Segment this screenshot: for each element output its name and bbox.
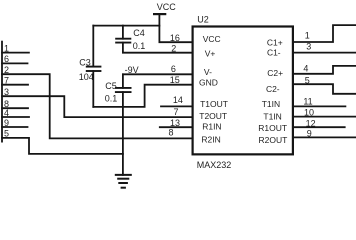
svg-text:T1OUT: T1OUT	[200, 99, 228, 109]
svg-text:R1IN: R1IN	[202, 121, 221, 131]
svg-text:C2+: C2+	[267, 68, 283, 78]
svg-text:2: 2	[171, 44, 176, 54]
svg-text:10: 10	[304, 108, 314, 118]
wire pin 11 T1IN	[293, 105, 346, 107]
wire pin 1 C1+	[293, 25, 356, 42]
svg-text:C4: C4	[133, 28, 145, 38]
chip left pin names	[199, 34, 228, 144]
svg-text:7: 7	[173, 107, 178, 117]
chip right pin numbers	[303, 31, 315, 139]
capacitor C4 top lead	[122, 26, 124, 39]
svg-text:3: 3	[306, 42, 311, 52]
wire connector pin 6	[2, 62, 28, 64]
svg-text:C5: C5	[105, 81, 117, 91]
wire pin 9 R2OUT	[293, 136, 356, 138]
wire connector pin 3 to T2OUT	[2, 96, 193, 117]
svg-text:0.1: 0.1	[133, 41, 146, 51]
wire connector pin 9	[2, 126, 28, 128]
svg-text:15: 15	[170, 75, 180, 85]
svg-text:12: 12	[306, 119, 316, 129]
wire connector pin 8	[2, 107, 28, 109]
svg-text:C2-: C2-	[266, 84, 280, 94]
wire connector pin 5 to ground	[2, 138, 123, 154]
svg-text:6: 6	[171, 64, 176, 74]
svg-text:104: 104	[79, 72, 94, 82]
wire pin 14 stub	[161, 105, 193, 107]
chip left pin numbers	[168, 33, 182, 138]
capacitor C3 plates	[86, 39, 132, 92]
chip right pin names	[258, 37, 287, 145]
wire VCC stem to pin 16	[159, 15, 192, 42]
svg-text:-9V: -9V	[125, 65, 139, 75]
wire pin 13 stub	[160, 126, 193, 128]
svg-text:4: 4	[4, 108, 9, 118]
svg-text:R2OUT: R2OUT	[258, 135, 287, 145]
connector body edge	[1, 42, 3, 142]
svg-text:11: 11	[303, 96, 312, 106]
svg-text:9: 9	[4, 118, 9, 128]
svg-text:8: 8	[168, 128, 173, 138]
svg-text:T1IN: T1IN	[263, 111, 281, 121]
svg-text:R1OUT: R1OUT	[258, 123, 287, 133]
connector pin digits	[4, 43, 9, 138]
svg-text:U2: U2	[197, 15, 209, 25]
svg-text:MAX232: MAX232	[197, 160, 232, 170]
svg-text:4: 4	[303, 63, 308, 73]
svg-text:5: 5	[4, 129, 9, 139]
wire pin 12 R1OUT	[293, 126, 345, 128]
svg-text:1: 1	[305, 31, 310, 41]
svg-text:14: 14	[173, 95, 183, 105]
svg-text:C3: C3	[79, 58, 91, 68]
wire connector pin 4	[2, 116, 29, 118]
svg-text:1: 1	[4, 43, 9, 53]
svg-text:0.1: 0.1	[105, 94, 118, 104]
ground symbol	[115, 175, 132, 188]
wire pin 5 C2-	[293, 84, 356, 94]
capacitor C3 top lead	[92, 26, 94, 67]
svg-text:2: 2	[4, 65, 9, 75]
wire -9V to V- pin 6	[123, 73, 193, 75]
wire C4 bottom to V+ pin 2	[123, 43, 193, 53]
svg-text:C1-: C1-	[267, 47, 281, 57]
svg-text:16: 16	[170, 33, 180, 43]
svg-text:V+: V+	[205, 48, 216, 58]
wire connector pin 2 to R2IN	[2, 74, 193, 138]
capacitor C4 plates	[115, 38, 131, 40]
wire VCC top rail	[93, 25, 159, 27]
chip U2 MAX232 body	[193, 27, 293, 155]
svg-text:R2IN: R2IN	[201, 135, 220, 145]
svg-text:9: 9	[307, 129, 312, 139]
svg-text:T2OUT: T2OUT	[199, 111, 227, 121]
svg-text:V-: V-	[204, 67, 212, 77]
wire pin 10 T2IN	[293, 116, 356, 118]
wire connector pin 7	[2, 84, 28, 86]
svg-text:T1IN: T1IN	[262, 99, 280, 109]
svg-text:VCC: VCC	[203, 34, 221, 44]
capacitor C5 top lead	[122, 74, 124, 88]
svg-text:7: 7	[4, 76, 9, 86]
svg-text:13: 13	[170, 118, 180, 128]
wire pin 4 C2+	[293, 66, 356, 74]
power symbol VCC bar	[153, 13, 166, 15]
svg-text:C1+: C1+	[267, 37, 283, 47]
wire connector pin 1	[2, 52, 29, 54]
capacitor C5 plates	[115, 87, 132, 89]
wire ground net vertical	[122, 92, 124, 175]
wire C3 to GND pin15	[93, 85, 192, 107]
capacitor C3 bottom lead	[92, 71, 94, 107]
svg-text:VCC: VCC	[157, 2, 177, 12]
svg-text:GND: GND	[199, 77, 218, 87]
wire pin 3 C1-	[293, 52, 356, 54]
svg-text:5: 5	[305, 75, 310, 85]
svg-text:6: 6	[4, 54, 9, 64]
svg-text:3: 3	[4, 87, 9, 97]
